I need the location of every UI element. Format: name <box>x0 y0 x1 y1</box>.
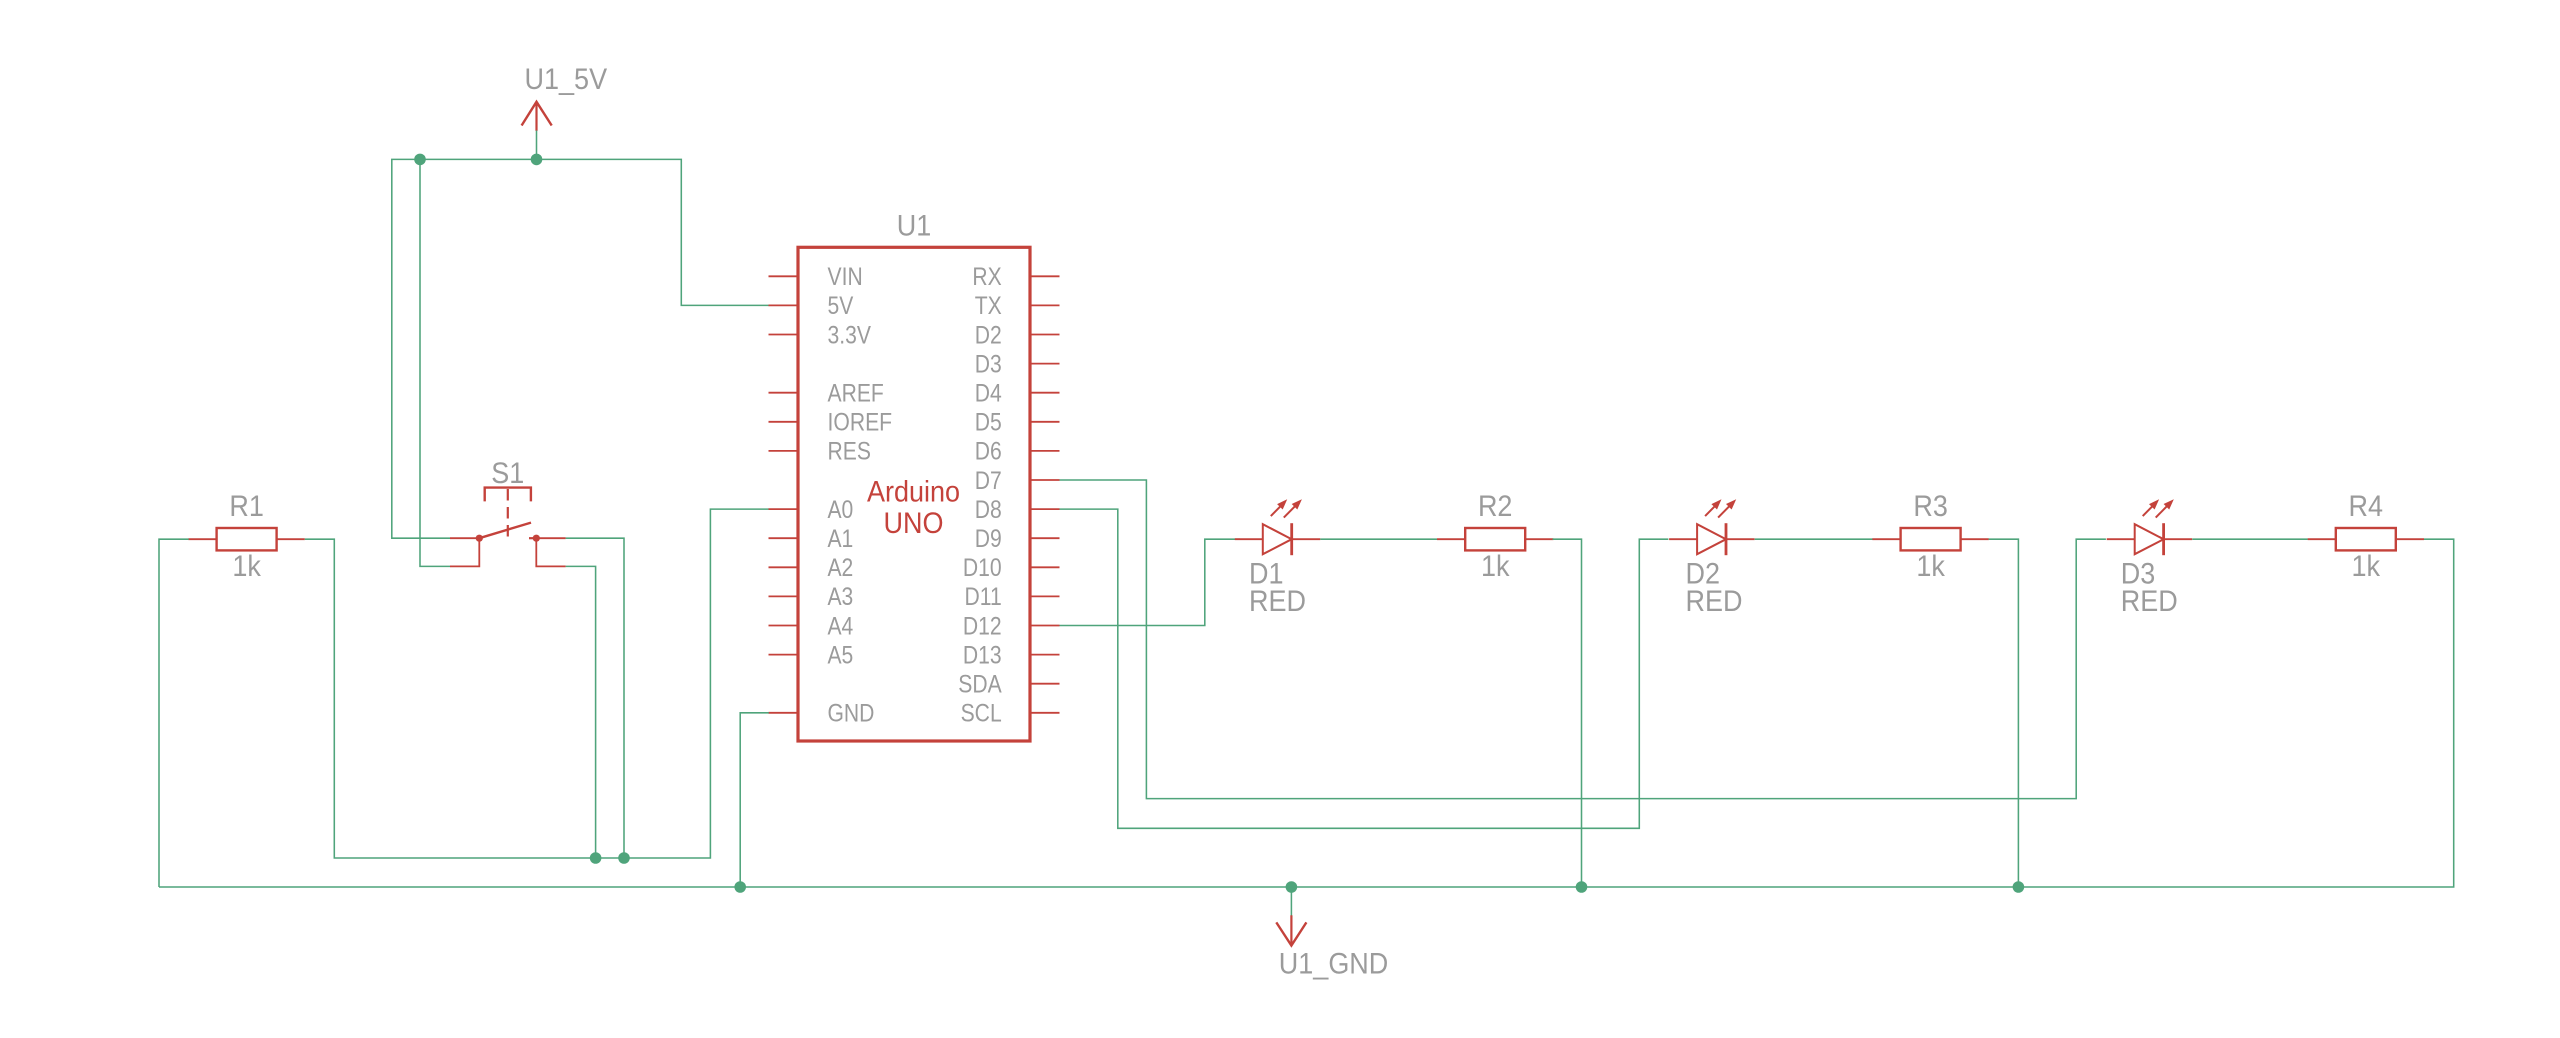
junction A0 net / S1 pin4 <box>590 852 602 864</box>
junction A0 net / S1 pin2 <box>618 852 630 864</box>
wire S1 pin2 to A0 net <box>566 538 624 858</box>
svg-text:R4: R4 <box>2349 490 2384 523</box>
LED D2 cathode bar <box>1725 523 1728 555</box>
resistor R2 left lead <box>1437 538 1465 540</box>
junction GND rail / R2 <box>1576 881 1588 893</box>
wire D3 cathode to R4 <box>2192 538 2308 540</box>
svg-text:1k: 1k <box>232 550 261 583</box>
switch S1 pin4 leg <box>536 538 565 566</box>
net label U1_5V <box>525 63 608 96</box>
pin D12 (U1 right) <box>963 612 1060 640</box>
svg-text:D3: D3 <box>975 350 1002 378</box>
value 1k (R2) <box>1481 550 1510 583</box>
svg-text:D2: D2 <box>975 321 1002 349</box>
IC U1 Arduino UNO body <box>798 247 1030 741</box>
LED D1 anode lead <box>1235 538 1263 540</box>
svg-text:S1: S1 <box>491 457 524 490</box>
svg-text:RX: RX <box>972 263 1002 291</box>
wire 5V branch to S1 pin3 <box>420 159 450 566</box>
value RED (D3) <box>2121 585 2178 618</box>
value RED (D1) <box>1249 585 1306 618</box>
wire 5V stem to power flag <box>536 131 538 160</box>
resistor R1 left lead <box>188 538 216 540</box>
resistor R4 left lead <box>2308 538 2336 540</box>
pin RES (U1 left) <box>769 438 871 466</box>
pin 3.3V (U1 left) <box>769 321 872 349</box>
svg-text:R3: R3 <box>1913 490 1948 523</box>
pin A5 (U1 left) <box>769 641 854 669</box>
LED D3 triangle <box>2135 524 2164 554</box>
svg-text:AREF: AREF <box>828 380 884 408</box>
svg-text:D13: D13 <box>963 641 1002 669</box>
wire R2 to GND rail <box>1553 539 1582 887</box>
switch S1 lever <box>479 523 531 539</box>
resistor R2 right lead <box>1525 538 1553 540</box>
pin D3 (U1 right) <box>975 350 1060 378</box>
label R4 <box>2349 490 2384 523</box>
pin TX (U1 right) <box>975 292 1060 320</box>
pin IOREF (U1 left) <box>769 409 893 437</box>
LED D1 emission arrows <box>1271 499 1302 517</box>
label U1 <box>897 209 932 242</box>
pin A4 (U1 left) <box>769 612 854 640</box>
pin A1 (U1 left) <box>769 525 854 553</box>
svg-text:UNO: UNO <box>884 507 944 540</box>
pin D11 (U1 right) <box>965 583 1060 611</box>
junction GND rail / ground flag <box>1286 881 1298 893</box>
pin 5V (U1 left) <box>769 292 854 320</box>
svg-text:D4: D4 <box>975 380 1002 408</box>
resistor R1 body <box>217 528 277 550</box>
LED D2 emission arrows <box>1705 499 1736 517</box>
wire R3 to GND rail <box>1989 539 2019 887</box>
label R1 <box>229 490 264 523</box>
wire U1 GND pin to rail <box>740 713 769 887</box>
LED D3 cathode lead <box>2164 538 2193 540</box>
junction GND rail / R3 <box>2013 881 2025 893</box>
pin A0 (U1 left) <box>769 496 854 524</box>
svg-text:A0: A0 <box>828 496 854 524</box>
svg-text:SDA: SDA <box>958 671 1002 699</box>
switch S1 fixed contact <box>529 537 536 539</box>
junction 5V rail / S1 pin3 branch <box>414 154 426 166</box>
svg-text:D10: D10 <box>963 554 1002 582</box>
svg-text:A1: A1 <box>828 525 854 553</box>
LED D2 triangle <box>1697 524 1726 554</box>
resistor R3 right lead <box>1961 538 1989 540</box>
wire U1 D8 to D2 anode <box>1060 509 1669 828</box>
resistor R4 body <box>2336 528 2396 550</box>
LED D3 anode lead <box>2107 538 2135 540</box>
svg-text:A4: A4 <box>828 612 854 640</box>
svg-text:A3: A3 <box>828 583 854 611</box>
switch S1 actuator dashed link <box>507 489 509 537</box>
svg-text:1k: 1k <box>2352 550 2381 583</box>
wire S1 pin4 to A0 net <box>566 566 596 858</box>
svg-text:D11: D11 <box>965 583 1002 611</box>
resistor R4 right lead <box>2396 538 2424 540</box>
wire R1 left to GND rail <box>159 539 189 887</box>
label D3 <box>2121 557 2156 590</box>
pin D2 (U1 right) <box>975 321 1060 349</box>
pin AREF (U1 left) <box>769 380 884 408</box>
switch S1 pin1 pad <box>476 535 483 542</box>
value 1k (R4) <box>2352 550 2381 583</box>
svg-text:D8: D8 <box>975 496 1002 524</box>
svg-text:1k: 1k <box>1481 550 1510 583</box>
LED D1 cathode bar <box>1290 523 1293 555</box>
svg-text:VIN: VIN <box>828 263 863 291</box>
LED D2 anode lead <box>1669 538 1697 540</box>
wire GND rail <box>159 539 2454 887</box>
ground flag U1_GND (arrow down) <box>1276 915 1306 945</box>
LED D2 cathode lead <box>1726 538 1755 540</box>
svg-text:U1_GND: U1_GND <box>1279 947 1389 980</box>
pin RX (U1 right) <box>972 263 1059 291</box>
switch S1 pin2 pad <box>533 535 540 542</box>
value 1k (R3) <box>1916 550 1945 583</box>
pin D5 (U1 right) <box>975 409 1060 437</box>
svg-text:R2: R2 <box>1478 490 1513 523</box>
pin D10 (U1 right) <box>963 554 1060 582</box>
pin D7 (U1 right) <box>975 467 1060 495</box>
label D1 <box>1249 557 1284 590</box>
svg-text:R1: R1 <box>229 490 264 523</box>
net label U1_GND <box>1279 947 1389 980</box>
svg-text:RED: RED <box>1249 585 1306 618</box>
svg-text:RED: RED <box>2121 585 2178 618</box>
pin D6 (U1 right) <box>975 438 1060 466</box>
pin D4 (U1 right) <box>975 380 1060 408</box>
label D2 <box>1686 557 1721 590</box>
pin D8 (U1 right) <box>975 496 1060 524</box>
resistor R3 body <box>1901 528 1961 550</box>
switch S1 button cap bracket <box>485 488 531 502</box>
resistor R3 left lead <box>1872 538 1900 540</box>
value 1k (R1) <box>232 550 261 583</box>
svg-text:RES: RES <box>828 438 871 466</box>
svg-text:D6: D6 <box>975 438 1002 466</box>
pin VIN (U1 left) <box>769 263 863 291</box>
svg-text:1k: 1k <box>1916 550 1945 583</box>
svg-text:A2: A2 <box>828 554 854 582</box>
pin D9 (U1 right) <box>975 525 1060 553</box>
junction GND rail / U1 GND <box>734 881 746 893</box>
wire A0 net: U1 A0 pin to R1 right lead <box>305 509 769 858</box>
svg-text:D12: D12 <box>963 612 1002 640</box>
label R2 <box>1478 490 1513 523</box>
wire U1 D12 to D1 anode <box>1060 539 1241 625</box>
svg-text:3.3V: 3.3V <box>828 321 872 349</box>
wire D1 cathode to R2 <box>1320 538 1437 540</box>
svg-text:D7: D7 <box>975 467 1002 495</box>
value RED (D2) <box>1686 585 1743 618</box>
svg-text:5V: 5V <box>828 292 854 320</box>
LED D1 triangle <box>1263 524 1292 554</box>
pin A3 (U1 left) <box>769 583 854 611</box>
wire D2 cathode to R3 <box>1755 538 1873 540</box>
switch S1 pin1 stub <box>450 537 479 539</box>
svg-text:D5: D5 <box>975 409 1002 437</box>
LED D3 cathode bar <box>2162 523 2165 555</box>
svg-text:U1_5V: U1_5V <box>525 63 608 96</box>
LED D1 cathode lead <box>1292 538 1321 540</box>
svg-text:U1: U1 <box>897 209 932 242</box>
power flag U1_5V (arrow up) <box>522 102 552 131</box>
svg-text:IOREF: IOREF <box>828 409 893 437</box>
pin D13 (U1 right) <box>963 641 1060 669</box>
pin SCL (U1 right) <box>961 700 1060 728</box>
svg-text:SCL: SCL <box>961 700 1002 728</box>
svg-text:D9: D9 <box>975 525 1002 553</box>
pin A2 (U1 left) <box>769 554 854 582</box>
text Arduino UNO <box>867 476 960 540</box>
label R3 <box>1913 490 1948 523</box>
svg-text:A5: A5 <box>828 641 854 669</box>
switch S1 pin2 stub <box>536 537 565 539</box>
label S1 <box>491 457 524 490</box>
svg-text:TX: TX <box>975 292 1002 320</box>
svg-text:GND: GND <box>828 700 875 728</box>
resistor R2 body <box>1465 528 1525 550</box>
pin SDA (U1 right) <box>958 671 1059 699</box>
wire U1 D7 to D3 anode <box>1060 480 2106 799</box>
junction 5V rail / power flag stem <box>531 154 543 166</box>
pin GND (U1 left) <box>769 700 875 728</box>
svg-text:Arduino: Arduino <box>867 476 960 509</box>
LED D3 emission arrows <box>2143 499 2174 517</box>
svg-text:RED: RED <box>1686 585 1743 618</box>
switch S1 pin3 leg <box>450 538 479 566</box>
wire stem to ground flag <box>1290 887 1292 916</box>
wire 5V net: S1 pin1 up, top rail, down to U1 5V pin <box>392 159 769 538</box>
resistor R1 right lead <box>277 538 305 540</box>
